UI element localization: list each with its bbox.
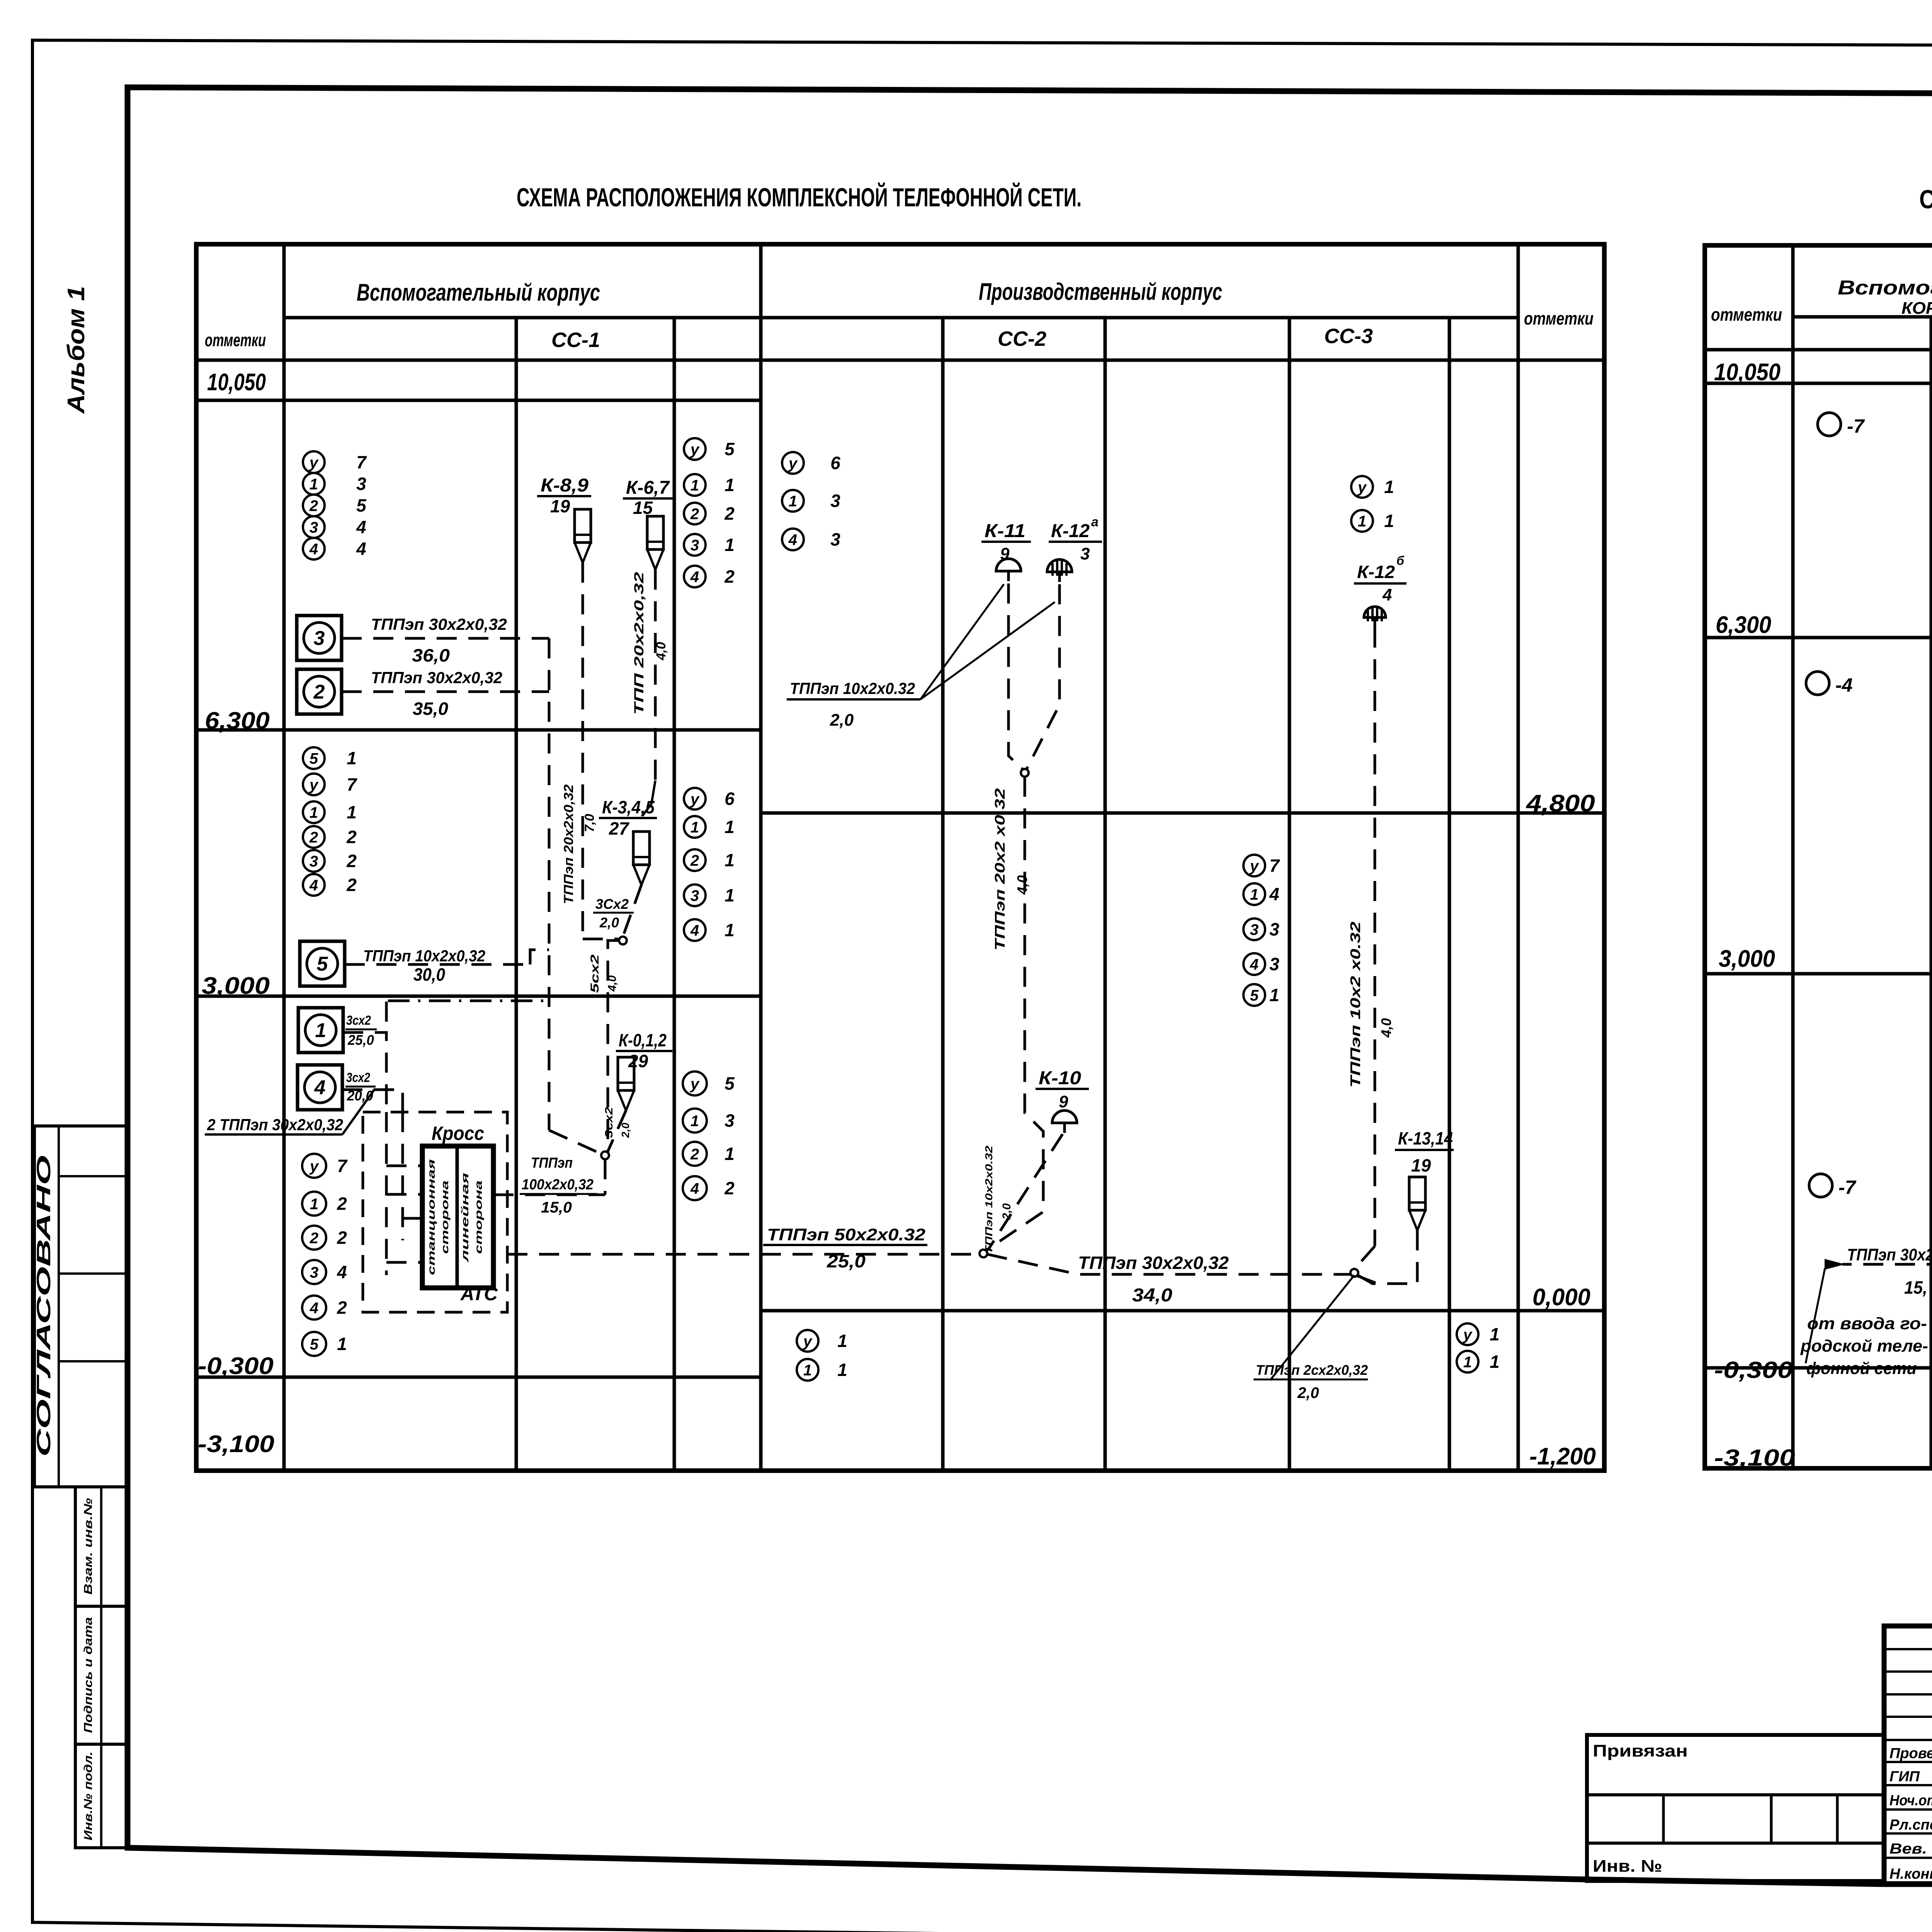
svg-text:у: у [788,455,798,472]
svg-text:3сх2: 3сх2 [346,1013,371,1028]
АТС dashed enclosure [363,1112,507,1312]
riser cable from K-12a (dashed) [1026,584,1060,770]
svg-text:Н.контр.: Н.контр. [1889,1866,1932,1882]
svg-text:Взам. инв.№: Взам. инв.№ [82,1498,95,1595]
svg-text:ТППэп 10х2х0,32: ТППэп 10х2х0,32 [363,947,485,965]
svg-text:3,000: 3,000 [202,973,270,999]
svg-text:15, 0: 15, 0 [1904,1277,1932,1298]
svg-text:1: 1 [1269,985,1279,1005]
svg-text:3: 3 [1269,919,1279,939]
svg-text:3сх2: 3сх2 [346,1070,370,1085]
svg-text:4: 4 [690,922,699,939]
svg-text:б: б [1396,554,1405,568]
svg-text:ТППэп 10х2х0.32: ТППэп 10х2х0.32 [790,679,915,697]
cable from box 1 (dashed) [343,1032,386,1112]
svg-text:ТППэп 20х2 х0.32: ТППэп 20х2 х0.32 [992,788,1008,951]
right table sub-header line [1705,348,1932,352]
floor box 4 with cable 3сх2 20,0 [298,1065,342,1110]
svg-text:СС-2: СС-2 [998,327,1046,350]
svg-text:2: 2 [337,1228,347,1248]
svg-text:5: 5 [310,750,318,767]
svg-text:СС-1: СС-1 [551,328,600,352]
svg-text:6: 6 [724,789,735,809]
svg-text:1: 1 [310,1196,318,1213]
cable node: junction of 50x2 run [980,1250,987,1257]
svg-text:ТППэп 30х2х0,32: ТППэп 30х2х0,32 [371,615,507,633]
subscriber group: prod bldg right col basement (У1 1-1) [1457,1323,1478,1345]
svg-text:10,050: 10,050 [207,369,266,396]
svg-text:АТС: АТС [460,1284,498,1304]
svg-text:2,0: 2,0 [599,915,619,930]
svg-text:2: 2 [346,875,357,895]
svg-text:1: 1 [837,1360,847,1380]
distribution dome K-12б (hatched) [1364,607,1386,617]
cable run ТППэп 30х2х0,32 34,0 (dashed) [987,1254,1352,1274]
left table floor line 4,800 [761,811,1604,815]
svg-text:4: 4 [788,531,797,548]
svg-text:-4: -4 [1835,674,1852,696]
cross-connect stubs (dashed) [385,1112,388,1275]
svg-text:7: 7 [1269,855,1280,876]
subscriber group: aux bldg floor 3,000 (5-1 У7 1-1 2-2 3-2 4-2) [303,747,325,769]
svg-text:9: 9 [1059,1092,1068,1111]
cable ТППэп 100х2х0,32 15,0 from Кросс to risers (dashed) [493,1194,605,1196]
svg-text:К-13,14: К-13,14 [1398,1128,1453,1148]
cable to city network entry (dashed) ТППэп 30х2х0.32 15,0 [1842,1244,1932,1264]
svg-text:ТППэп 30х2х0,32: ТППэп 30х2х0,32 [371,668,502,687]
svg-text:1: 1 [724,1144,735,1164]
svg-text:0,000: 0,000 [1532,1284,1590,1311]
subscriber group: prod bldg CC-2 col basement (У1 1-1) [797,1330,818,1352]
svg-text:ТППэп: ТППэп [531,1155,573,1171]
svg-text:19: 19 [550,496,570,516]
right table header line [1793,315,1932,319]
svg-text:1: 1 [690,819,699,836]
svg-text:1: 1 [690,477,699,494]
left table outline [196,244,1604,1471]
left table floor line 10,050 [196,399,761,402]
svg-text:4: 4 [356,539,366,559]
svg-text:19: 19 [1411,1155,1431,1175]
svg-text:1: 1 [1250,886,1259,903]
cable node 2 above Кросс feed [601,1151,609,1159]
svg-text:1: 1 [724,535,735,555]
svg-text:4,0: 4,0 [1014,875,1030,895]
svg-text:10,050: 10,050 [1714,359,1781,386]
floor box 1 with cable 3сх2 25,0 [298,1008,343,1053]
svg-text:ТППэп 2сх2х0,32: ТППэп 2сх2х0,32 [1256,1362,1368,1378]
cable run ТППэп 50х2х0.32 25,0 from Кросс (dashed) [507,1253,980,1256]
riser cable 5сх2 4,0 down to node 2 (dashed) [608,940,619,1153]
riser cable from K-6,7 (dashed) [654,570,657,781]
subscriber group: prod bldg CC-3 col floor 3,000 (У7 1-4 3-3 4-3 5-1) [1243,855,1265,876]
title block outline [1884,1626,1932,1884]
svg-text:15,0: 15,0 [541,1199,572,1216]
subscriber group: CC-1 right col floor 6,300 (У5 1-1 2-2 3-1 4-2) [684,438,706,460]
svg-text:36,0: 36,0 [412,645,450,665]
svg-text:6,300: 6,300 [1716,612,1771,638]
svg-text:у: у [690,1075,700,1092]
svg-text:Инв. №: Инв. № [1593,1857,1662,1876]
svg-text:СХЕМА РАСПОЛОЖЕНИЯ ГОРОДСКОЙ: СХЕМА РАСПОЛОЖЕНИЯ ГОРОДСКОЙ ТЕЛЕФОННОЙ … [1919,184,1932,214]
svg-text:Подпись и дата: Подпись и дата [82,1617,95,1733]
svg-text:25,0: 25,0 [347,1032,374,1048]
svg-text:К-12: К-12 [1051,521,1090,541]
svg-text:2: 2 [724,566,735,587]
svg-text:30,0: 30,0 [413,964,445,985]
svg-text:сторона: сторона [473,1180,484,1254]
cable run (dash-dot) at 3,000 level [388,1000,548,1002]
distribution dome K-10 [1052,1111,1077,1123]
svg-text:2,0: 2,0 [619,1122,631,1138]
svg-text:4: 4 [356,517,366,537]
svg-text:К-12: К-12 [1357,562,1395,582]
svg-text:5: 5 [317,953,328,975]
cable node CC-3 [1350,1269,1358,1277]
svg-text:1: 1 [803,1362,812,1379]
svg-text:2,0: 2,0 [1000,1203,1013,1220]
svg-text:1: 1 [310,804,318,821]
svg-text:К-0,1,2: К-0,1,2 [619,1030,667,1050]
svg-text:15: 15 [633,498,653,518]
svg-text:4: 4 [690,568,699,585]
svg-text:25,0: 25,0 [827,1251,866,1271]
svg-text:1: 1 [1490,1324,1500,1344]
svg-text:2,0: 2,0 [830,711,854,730]
svg-text:4,800: 4,800 [1526,790,1595,817]
svg-text:3: 3 [690,887,699,904]
svg-text:у: у [309,454,319,471]
svg-text:1: 1 [724,817,735,837]
left table column lines [282,244,286,1471]
svg-text:Привязан: Привязан [1593,1742,1688,1760]
svg-text:у: у [309,1158,319,1175]
svg-text:ТПП 20х2х0,32: ТПП 20х2х0,32 [632,572,646,715]
svg-text:3: 3 [1250,921,1259,938]
svg-text:линейная: линейная [459,1173,471,1263]
svg-text:3сх2: 3сх2 [603,1107,615,1138]
svg-text:2: 2 [337,1194,347,1214]
left table floor line 3,000 [196,995,761,998]
Кросс cabinet (станционная/линейная сторона) [422,1146,493,1288]
svg-text:-3,100: -3,100 [1714,1445,1795,1471]
svg-text:5: 5 [1250,987,1259,1004]
svg-text:3: 3 [310,853,318,870]
city phone count: 7 (aux floor -0,300) [1809,1174,1832,1197]
svg-text:К-11: К-11 [985,521,1026,541]
svg-text:Проверил: Проверил [1889,1745,1932,1762]
right table floor line 3,000 [1705,972,1932,976]
svg-text:1: 1 [789,493,797,510]
riser cable from K-11 (dashed) [1009,583,1024,770]
svg-text:КОРПУС: КОРПУС [1901,299,1932,318]
svg-text:3: 3 [724,1111,735,1131]
left table floor line 6,300 [196,728,761,732]
svg-text:6,300: 6,300 [205,707,270,734]
svg-text:4,0: 4,0 [1378,1018,1394,1038]
svg-text:2: 2 [690,1146,699,1163]
riser cable CC-3 up (dashed) ТППэп 10х2х0.32 4,0 [1374,628,1376,1246]
subscriber group: prod bldg CC-3 col floor 4,800 (У1 1-1) [1351,476,1373,498]
svg-text:1: 1 [315,1019,327,1042]
margin stamp: Инв. № подл. [75,1744,129,1848]
svg-text:2: 2 [309,497,318,514]
svg-text:у: у [690,441,700,458]
subscriber group: CC-1 right col floor -0,300 (У5 1-3 2-1 4-2) [683,1071,707,1095]
riser cable from K-13,14 to node (dashed) [1356,1230,1417,1284]
svg-text:3: 3 [830,491,840,511]
svg-text:ТППэп 20х2х0,32: ТППэп 20х2х0,32 [561,784,576,904]
margin table: СОГЛАСОВАНО [34,1126,129,1487]
right table floor line -0,300 [1705,1366,1932,1370]
svg-text:4: 4 [314,1077,326,1099]
left table floor line 0,000 [761,1309,1604,1313]
svg-text:ТППэп 50х2х0.32: ТППэп 50х2х0.32 [767,1225,926,1244]
svg-text:Альбом 1: Альбом 1 [63,286,90,414]
svg-text:Вспомогательный корпус: Вспомогательный корпус [357,279,600,306]
svg-text:1: 1 [1490,1352,1500,1372]
cable node CC-2 [1021,769,1029,777]
svg-text:4,0: 4,0 [654,642,668,660]
svg-text:4: 4 [1382,585,1392,604]
splice label ТППэп 2сх2х0,32 2,0 with leader [1270,1275,1354,1380]
floor box 3 with cable ТППэп 30х2х0,32 36,0 [297,616,342,660]
svg-text:3: 3 [310,519,318,536]
svg-text:СХЕМА РАСПОЛОЖЕНИЯ КОМПЛЕКСН: СХЕМА РАСПОЛОЖЕНИЯ КОМПЛЕКСНОЙ ТЕЛЕФОННО… [517,182,1082,212]
svg-text:1: 1 [837,1331,847,1351]
svg-text:фонной сети: фонной сети [1806,1359,1917,1378]
riser cable CC-2 down (dashed) ТППэп 20х2х0.32 4,0 [986,777,1043,1250]
svg-text:К-6,7: К-6,7 [626,478,670,498]
svg-text:4: 4 [309,541,318,558]
svg-text:1: 1 [1384,477,1394,497]
svg-text:4: 4 [1269,884,1279,904]
svg-text:-0,300: -0,300 [198,1353,274,1379]
left table header line [284,316,1518,320]
svg-text:4,0: 4,0 [606,975,619,992]
svg-text:2: 2 [310,1230,318,1247]
svg-text:2: 2 [313,681,325,703]
riser cable from K-8,9 (dashed) [582,563,584,933]
distribution dome K-11 [996,559,1021,571]
svg-text:Кросс: Кросс [432,1122,484,1144]
svg-text:2: 2 [690,852,699,869]
svg-text:3: 3 [690,537,699,554]
svg-text:2: 2 [337,1298,347,1318]
right table column lines [1791,245,1795,1468]
floor box 5 with cable ТППэп 10х2х0,32 30,0 [300,941,345,986]
svg-text:родской теле-: родской теле- [1800,1337,1928,1355]
svg-text:-3,100: -3,100 [198,1431,274,1458]
svg-text:4: 4 [1250,956,1259,973]
cable node at 3,000 level [619,937,627,944]
svg-text:1: 1 [724,920,735,940]
svg-text:1: 1 [1358,513,1366,530]
city phone count: 4 (aux floor 3,000) [1806,672,1829,695]
svg-text:ТППэп 10х2 х0.32: ТППэп 10х2 х0.32 [1347,922,1363,1088]
svg-text:ТППэп 30х2х0.32: ТППэп 30х2х0.32 [1847,1245,1932,1264]
svg-text:3: 3 [314,627,325,650]
distribution dome K-12a (hatched) [1047,560,1072,572]
svg-text:ТППэп 30х2х0,32: ТППэп 30х2х0,32 [1078,1253,1229,1273]
svg-text:4: 4 [309,877,318,894]
svg-text:3: 3 [830,529,840,549]
svg-text:отметки: отметки [1711,304,1782,325]
svg-text:у: у [803,1333,813,1350]
svg-text:у: у [1249,857,1259,874]
svg-text:7: 7 [337,1156,348,1176]
svg-text:1: 1 [690,1112,699,1129]
svg-text:-7: -7 [1838,1177,1857,1198]
riser cable from K-10 (dashed) ТППэп 10х2х0.32 2,0 [989,1134,1063,1248]
svg-text:Инв.№ подл.: Инв.№ подл. [82,1752,95,1840]
svg-text:3: 3 [1080,544,1090,563]
svg-text:3: 3 [1269,954,1279,974]
svg-text:7: 7 [347,774,357,794]
svg-text:2: 2 [724,503,735,524]
svg-text:у: у [1463,1326,1473,1343]
subscriber group: aux bldg floor 6,300 (У7 1-3 2-5 3-4 4-4) [303,451,325,473]
svg-text:1: 1 [724,885,735,905]
riser cable from boxes 3,2 down to node 2 (dashed) [548,638,551,1130]
svg-text:1: 1 [1384,511,1394,531]
subscriber group: aux bldg floor -0,300 (У7 1-2 2-2 3-4 4-2 5-1) [302,1154,326,1178]
svg-text:4: 4 [337,1262,347,1282]
svg-text:5: 5 [724,1073,735,1094]
svg-text:5сх2: 5сх2 [588,954,601,993]
left table floor line -0,300 [196,1376,761,1379]
svg-text:2: 2 [346,827,357,847]
svg-text:2: 2 [346,851,357,871]
svg-text:отметки: отметки [1524,308,1594,328]
svg-text:у: у [690,791,700,808]
svg-text:-7: -7 [1847,415,1865,437]
svg-text:у: у [1357,479,1367,496]
svg-text:35,0: 35,0 [413,699,448,719]
svg-text:2: 2 [309,829,318,846]
svg-text:сторона: сторона [439,1180,451,1254]
left table sub-header line [196,359,1604,362]
svg-text:2: 2 [690,505,699,522]
svg-text:-0,300: -0,300 [1714,1357,1793,1383]
margin stamp: Взам. инв. № [75,1487,129,1606]
svg-text:5: 5 [310,1336,319,1353]
svg-text:1: 1 [347,748,357,768]
svg-text:отметки: отметки [205,330,266,350]
svg-text:4: 4 [310,1299,318,1316]
svg-text:К-8,9: К-8,9 [541,475,588,496]
svg-text:станционная: станционная [425,1159,437,1275]
svg-text:СОГЛАСОВАНО: СОГЛАСОВАНО [33,1155,54,1457]
right table outline [1705,245,1932,1468]
svg-text:2: 2 [724,1178,735,1198]
svg-text:-1,200: -1,200 [1529,1443,1596,1470]
subscriber group: CC-1 right col floor 3,000 (У6 1-1 2-1 3-1 4-1) [684,788,706,810]
svg-text:ТППэп 10х2х0.32: ТППэп 10х2х0.32 [983,1145,995,1254]
cable from node 2 to horizontal run (dashed) [604,1159,607,1195]
svg-text:1: 1 [337,1334,347,1354]
svg-text:3: 3 [310,1264,318,1281]
svg-text:3,000: 3,000 [1719,946,1775,972]
svg-text:а: а [1091,515,1099,529]
svg-text:1: 1 [1463,1354,1472,1371]
svg-text:Вев. инж.: Вев. инж. [1889,1841,1932,1857]
svg-text:1: 1 [310,476,318,493]
svg-text:от ввода го-: от ввода го- [1807,1314,1927,1333]
svg-text:100х2х0,32: 100х2х0,32 [522,1177,594,1193]
city phone count: 7 (aux floor 6,300) [1818,413,1841,436]
svg-text:1: 1 [724,850,735,870]
binding box Привязан [1587,1735,1884,1881]
svg-text:5: 5 [724,439,735,459]
svg-text:3: 3 [356,474,366,494]
svg-text:Производственный корпус: Производственный корпус [979,279,1222,305]
svg-text:2,0: 2,0 [1297,1384,1319,1401]
svg-text:34,0: 34,0 [1132,1285,1172,1306]
svg-text:29: 29 [628,1051,648,1071]
cable stub below node (dashed) [1357,1276,1376,1283]
svg-text:Ноч.отдела: Ноч.отдела [1889,1793,1932,1809]
svg-text:2 ТППэп 30х2х0,32: 2 ТППэп 30х2х0,32 [207,1116,343,1134]
riser cable from K-3,4,5 to node (dashed) [623,885,641,937]
right table floor line 6,300 [1705,636,1932,639]
svg-text:7,0: 7,0 [582,814,597,832]
right table floor line 10,050 [1705,382,1932,385]
svg-text:27: 27 [609,818,630,838]
svg-text:К-3,4,5: К-3,4,5 [602,797,655,817]
riser cable from K-0,1,2 to node 2 (dashed) [607,1111,626,1152]
svg-text:Вспомогательный: Вспомогательный [1838,277,1932,299]
svg-text:К-10: К-10 [1039,1068,1081,1088]
svg-text:3Сх2: 3Сх2 [595,896,629,912]
svg-text:1: 1 [347,802,357,822]
floor box 2 with cable ТППэп 30х2х0,32 35,0 [297,669,342,714]
svg-text:7: 7 [356,452,367,472]
svg-text:Рл.спец.: Рл.спец. [1889,1817,1932,1833]
svg-text:5: 5 [356,495,367,515]
margin stamp: Подпись и дата [75,1606,129,1744]
subscriber group: prod bldg CC-2 col floor 4,800 (У6 1-3 4-3) [782,452,804,474]
svg-text:СС-3: СС-3 [1324,325,1373,348]
svg-text:6: 6 [830,453,840,473]
svg-text:4: 4 [690,1180,699,1197]
svg-text:у: у [309,776,319,793]
cable from box 4 (dashed) [342,1090,403,1112]
svg-text:ГИП: ГИП [1889,1769,1920,1785]
svg-text:1: 1 [724,475,735,495]
